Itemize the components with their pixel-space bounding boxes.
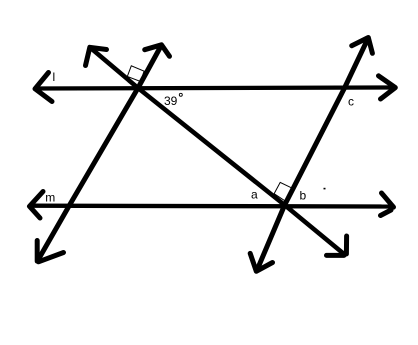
arrowhead line d bottom-left xyxy=(37,241,63,262)
right-angle mark at bottom intersection xyxy=(274,182,292,201)
arrowhead line c top-right xyxy=(352,38,373,54)
line m xyxy=(31,204,392,209)
svg-text:39: 39 xyxy=(164,94,178,108)
svg-text:b: b xyxy=(300,189,307,203)
stray dot xyxy=(324,188,326,190)
svg-text:m: m xyxy=(45,190,55,204)
right-angle mark at top intersection xyxy=(127,66,144,82)
svg-text:a: a xyxy=(251,188,258,202)
line l xyxy=(36,88,394,89)
arrowhead line m right xyxy=(381,193,394,216)
arrowhead line c bottom-left xyxy=(250,253,272,271)
arrowhead line d top-right xyxy=(145,45,170,57)
arrowhead line m left xyxy=(30,192,44,219)
svg-text:c: c xyxy=(348,95,354,109)
arrowhead transversal bottom-right xyxy=(327,236,347,255)
arrowhead transversal top-left xyxy=(86,47,107,65)
transversal line (through both intersections) xyxy=(90,47,345,254)
line d (parallel to c, through top intersection) xyxy=(38,45,162,262)
svg-text:l: l xyxy=(53,70,56,84)
arrowhead line l right xyxy=(379,76,396,99)
arrowhead line l left xyxy=(35,73,52,102)
line c xyxy=(257,37,369,271)
